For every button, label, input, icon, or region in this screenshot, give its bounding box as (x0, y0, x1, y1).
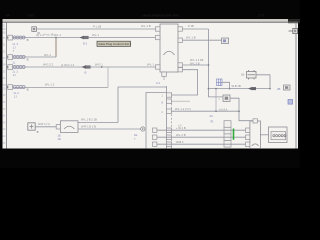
svg-text:W-L 2: W-L 2 (44, 53, 52, 57)
svg-text:G20: G20 (28, 14, 34, 18)
svg-text:+ W 1 B: + W 1 B (176, 126, 186, 130)
wire y=126.8 (35, 126, 60, 128)
left margin row numbers (blue) (3, 26, 6, 145)
connector face inner box (271, 132, 286, 140)
pin labels below coil C (12, 70, 18, 78)
svg-text:W-L 1 B: W-L 1 B (141, 24, 151, 28)
svg-text:B 2: B 2 (83, 42, 88, 46)
svg-text:W-L 1: W-L 1 (92, 33, 100, 37)
svg-text:A A A A: A A A A (219, 108, 227, 112)
motor block box (60, 121, 78, 133)
frame right line (295, 22, 297, 148)
pin labels below coil D (13, 91, 19, 99)
wire relay right pin3 y=65 joins vertical (183, 64, 209, 66)
wire relay right pin2 y=40 (183, 39, 222, 41)
junction at 239,111.2 (238, 110, 240, 112)
svg-text:ukwda tewwtew nwm Hw-t: ukwda tewwtew nwm Hw-t (142, 14, 179, 18)
svg-text:P-L 1B: P-L 1B (93, 25, 101, 29)
svg-text:A 2: A 2 (156, 81, 160, 85)
connector column solid line (166, 86, 168, 148)
wire row B (7, 56, 56, 58)
svg-text:W-L 1: W-L 1 (54, 33, 62, 37)
wire row D (7, 87, 108, 89)
svg-text:(1 W-G 1 4: (1 W-G 1 4 (61, 63, 75, 67)
svg-text:3B: 3B (3, 85, 6, 87)
svg-text:W-L 2 B: W-L 2 B (176, 133, 186, 137)
ground ring connector G (141, 127, 145, 131)
column pin box 1 (167, 93, 172, 97)
video letterbox background (0, 0, 300, 168)
white schematic page (3, 19, 299, 149)
svg-text:2B: 2B (277, 87, 281, 91)
wire top row (36, 28, 155, 30)
relay box (160, 24, 178, 72)
pin box at motor block (56, 125, 60, 129)
glow plug control unit label (97, 41, 131, 46)
connector arrow row A (80, 36, 89, 40)
bottom wire 3 y=144.2 (157, 143, 247, 145)
actuator arc (252, 144, 259, 146)
svg-text:W-L 1 4 1B: W-L 1 4 1B (190, 58, 204, 62)
junction at 270,87.5 (269, 88, 271, 90)
svg-text:B: B (27, 57, 29, 61)
svg-text:W-L 1 2: W-L 1 2 (45, 83, 55, 87)
relay pin bottom (162, 72, 167, 76)
ECU outer box top edge (118, 87, 167, 123)
svg-text:W-R 1 (Y): W-R 1 (Y) (38, 122, 50, 126)
terminal box end of y=40 wire (222, 38, 229, 44)
wire vertical join rows A-B (55, 38, 57, 58)
connector face pin circles (273, 135, 286, 137)
svg-text:W-L 1 B: W-L 1 B (186, 36, 196, 40)
connector face view outer box (269, 127, 288, 143)
svg-text:7E: 7E (210, 119, 214, 123)
relay pin right 1 (178, 27, 183, 31)
coil symbol row D (13, 86, 25, 89)
wire row C (7, 66, 156, 68)
small terminal box far right (284, 85, 291, 90)
column pin box 2 (167, 99, 172, 103)
coil symbol row B (13, 56, 25, 59)
junction C-D at x=77 (101, 66, 103, 68)
connector pin box row B (8, 55, 13, 60)
junction at 216,88.6 (215, 88, 217, 90)
svg-text:mi: mi (6, 14, 10, 18)
wire relay right pin1 y=29 (183, 28, 209, 30)
blue pin text below motor (57, 134, 61, 142)
ECU inner box top edge (146, 93, 167, 149)
top pin of tall box (253, 119, 257, 123)
faint text in top bar (6, 14, 264, 18)
wire from terminal box right down to tall box top pin (230, 98, 254, 121)
small blue glyph 2A below wire (210, 114, 214, 123)
wire y=111.2 from column to junction (172, 110, 240, 112)
pin number labels beside column (162, 95, 164, 115)
blue box right margin (288, 100, 293, 105)
frame top line (3, 21, 299, 23)
connector column C23 pin boxes (224, 121, 231, 147)
connector grid symbol (blue) (217, 79, 223, 86)
blue text below ring (134, 133, 138, 141)
svg-text:1L: 1L (12, 60, 16, 64)
wire vertical join rows C-D (107, 67, 109, 88)
svg-text:B: B (27, 87, 29, 91)
relay pin left 2 (156, 35, 161, 39)
connector pin box row A (8, 35, 13, 40)
fuse block top right (247, 70, 257, 80)
svg-text:W: W (37, 31, 40, 35)
svg-text:4 mc 1B: 4 mc 1B (44, 32, 54, 36)
junction dot row A (7, 37, 9, 39)
junction A-B at x=56 (55, 37, 57, 39)
svg-text:W-L 3 B: W-L 3 B (190, 61, 200, 65)
connector pin box row D (8, 85, 13, 90)
svg-text:27.0: 27.0 (258, 14, 264, 18)
svg-text:W-L 1 a 3 (Y): W-L 1 a 3 (Y) (175, 107, 191, 111)
column pin boxes bottom (167, 128, 172, 132)
junction at 216,111.2 (215, 110, 217, 112)
svg-text:W-B 1B: W-B 1B (232, 84, 241, 88)
relay pin right 2 (178, 38, 183, 42)
svg-text:W-B 2: W-B 2 (176, 140, 184, 144)
svg-text:2B: 2B (3, 29, 6, 31)
frame left line (6, 22, 8, 148)
relay pin right 4 (178, 68, 183, 72)
svg-text:0B: 0B (3, 32, 6, 34)
relay pin left 3 (156, 65, 161, 69)
junction block J4 (32, 27, 37, 32)
terminal box mid right (223, 95, 230, 102)
svg-text:2A: 2A (210, 114, 214, 118)
grey strip above frame (3, 19, 299, 21)
wire row A (7, 37, 156, 39)
right pins of bottom wires (246, 128, 250, 132)
top-right window control box (289, 28, 298, 33)
svg-text:W-R 1 B 2 B: W-R 1 B 2 B (81, 125, 96, 129)
wire tall box to right box (260, 134, 268, 136)
svg-text:1E: 1E (57, 137, 61, 141)
coil symbol row A (13, 36, 25, 39)
junction at 229,87.5 (229, 88, 231, 90)
relay pin left 1 (156, 27, 161, 31)
svg-text:W-G 1: W-G 1 (95, 63, 103, 67)
coil symbol row C (13, 66, 25, 69)
junction at 208.5,65 (208, 64, 210, 66)
bottom wire 1 y=130.2 (157, 129, 247, 131)
svg-text:W-G 2 2: W-G 2 2 (43, 63, 53, 67)
column pin box 3 (167, 109, 172, 113)
wire vertical x=216 (215, 89, 217, 112)
bottom wire rows pins at left (153, 128, 157, 132)
pin label stack below coil A (blue) (12, 42, 18, 53)
arrow glyph on y=87.5 wire (248, 87, 256, 90)
junction at 208.5,88.6 (208, 88, 210, 90)
wire from motor top right y=122 (78, 122, 118, 124)
svg-text:1B: 1B (241, 72, 244, 76)
green measurement cursor (233, 129, 235, 140)
motor coil arc (64, 126, 74, 129)
svg-text:B: B (27, 38, 29, 42)
svg-text:B: B (37, 130, 39, 134)
connector arrow row C (82, 65, 91, 69)
source block S1 (28, 123, 35, 130)
connector column dashed line (171, 93, 173, 149)
wire vertical x=208.5 down to terminal box (209, 29, 224, 97)
wire y=94.2 stub from column pin2 (172, 100, 191, 102)
wire relay right pin4 y=69.7 (172, 70, 198, 95)
svg-text:P 1B: P 1B (188, 24, 194, 28)
stub from grid connector to junction (222, 82, 230, 88)
relay pin right 3 (178, 63, 183, 67)
wire horizontal y=87.5 (209, 88, 271, 90)
relay coil arc (164, 51, 175, 55)
svg-text:W-L 1 B 2 1B: W-L 1 B 2 1B (81, 118, 97, 122)
connector pin box row C (8, 65, 13, 70)
svg-text:2B: 2B (3, 88, 6, 90)
wire from fuse right down to y=87.5 (256, 75, 270, 89)
svg-text:W-L 1: W-L 1 (147, 63, 155, 67)
bottom wire 2 y=137.2 (157, 136, 247, 138)
pin label stack below coil B (12, 60, 16, 64)
actuator tall box (250, 121, 261, 148)
svg-text:Glow Plug Control Unit 1: Glow Plug Control Unit 1 (98, 42, 131, 46)
wire from motor bottom right y=129 (78, 128, 141, 130)
svg-text:B: B (85, 71, 87, 75)
